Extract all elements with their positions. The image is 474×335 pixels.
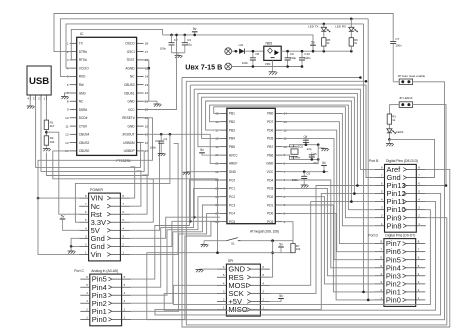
node corridorA outer2 join xyxy=(189,220,192,223)
wire JP LED13 left xyxy=(389,104,399,106)
svg-text:LED TX: LED TX xyxy=(308,25,318,29)
ground (LED13) xyxy=(386,139,394,146)
wire PD3-Pin3 xyxy=(282,188,374,275)
svg-text:C3: C3 xyxy=(187,38,191,42)
LED TX xyxy=(308,25,330,33)
wire xtal gnd xyxy=(318,147,324,149)
svg-text:RI#: RI# xyxy=(79,83,84,87)
wire POWER row 2 right xyxy=(130,171,141,206)
node outer3 join xyxy=(365,80,368,83)
wire analog Pin1 to PC4 xyxy=(131,213,220,311)
wire TEST AGND GND21 xyxy=(144,60,149,101)
svg-text:PD1: PD1 xyxy=(267,203,273,207)
wire outer left 1 xyxy=(193,89,195,217)
wire PD1-Pin1 xyxy=(282,205,374,292)
svg-text:PC3: PC3 xyxy=(229,203,235,207)
svg-text:DSR#: DSR# xyxy=(79,108,88,112)
svg-text:PD6: PD6 xyxy=(267,128,273,132)
svg-text:PD4: PD4 xyxy=(267,178,273,182)
svg-text:VCCIO: VCCIO xyxy=(79,66,90,70)
svg-text:CBUS0: CBUS0 xyxy=(79,149,90,153)
wire 7805 gnd xyxy=(272,60,274,66)
svg-text:Vin: Vin xyxy=(91,250,102,259)
power 5v (top) xyxy=(192,27,198,36)
connector Analog In header xyxy=(74,269,131,326)
wire MISO up xyxy=(270,194,355,310)
wire PD2-Pin2 xyxy=(282,197,374,284)
svg-text:100n: 100n xyxy=(242,61,249,65)
svg-text:IC: IC xyxy=(80,32,84,36)
wire ATmega GND22 xyxy=(190,171,220,173)
svg-text:VCC: VCC xyxy=(128,108,135,112)
FT232RL left pins 1-14 xyxy=(65,42,89,154)
LED RX xyxy=(335,25,358,33)
power 5v (ATmega VCC) xyxy=(321,161,327,173)
wire R7 top xyxy=(292,241,294,244)
node C3 tap xyxy=(184,34,187,37)
wire PB1-Pin9 xyxy=(214,107,375,218)
svg-text:PB5: PB5 xyxy=(229,145,235,149)
wire analog Pin2 to PC3 xyxy=(131,205,220,303)
svg-text:PB3: PB3 xyxy=(229,128,235,132)
wire VBUS xyxy=(45,101,47,121)
svg-text:C2: C2 xyxy=(174,38,178,42)
wire rail DTR-reset xyxy=(54,14,393,52)
ground (SPI) xyxy=(196,269,204,272)
power 5v (AVCC) xyxy=(199,148,220,155)
wire POWER row 4 right xyxy=(130,179,153,222)
jumper JP LED13 xyxy=(399,96,413,107)
node serial-Pin0 xyxy=(367,299,370,302)
wire SPI GND xyxy=(203,268,217,270)
svg-text:PB6: PB6 xyxy=(267,153,273,157)
wire analog Pin3 to PC2 xyxy=(131,197,220,296)
wire AREF xyxy=(144,134,220,163)
svg-text:USBDM: USBDM xyxy=(123,141,135,145)
wire wrap outer4 top xyxy=(182,77,360,79)
resistor R6 1k xyxy=(349,38,358,46)
svg-text:12: 12 xyxy=(65,133,69,137)
node LED RX tap xyxy=(350,18,353,21)
svg-text:4k7: 4k7 xyxy=(50,124,55,128)
node serial-Pin1 xyxy=(362,291,365,294)
wire POWER gnd down xyxy=(70,246,72,251)
svg-text:PC1: PC1 xyxy=(229,187,235,191)
diode VD1 xyxy=(238,43,244,54)
svg-text:10k: 10k xyxy=(296,247,301,251)
svg-text:DCD#: DCD# xyxy=(79,116,88,120)
svg-text:PB2: PB2 xyxy=(229,120,235,124)
wire POWER row 1 right xyxy=(130,167,135,198)
svg-text:PB7: PB7 xyxy=(267,145,273,149)
node LED13 junction xyxy=(388,138,391,141)
wire PB6 xtal xyxy=(282,155,318,159)
svg-text:TEST: TEST xyxy=(126,58,134,62)
wire C2C3 gnd xyxy=(172,52,185,54)
node SCK-Pin13 xyxy=(356,184,359,187)
ground (C2C3) xyxy=(175,53,183,58)
svg-text:PC0: PC0 xyxy=(229,178,235,182)
svg-text:RTS#: RTS# xyxy=(79,58,87,62)
wire PD7-Pin7 xyxy=(282,122,374,244)
svg-text:23: 23 xyxy=(145,83,149,87)
connector POWER header xyxy=(79,188,130,261)
svg-text:100n: 100n xyxy=(292,178,299,182)
wire VCC20 up xyxy=(144,35,177,110)
node R6 rail tap xyxy=(350,50,353,53)
svg-text:100n: 100n xyxy=(395,44,402,48)
svg-text:AVCC: AVCC xyxy=(229,153,238,157)
wire POWER row 3 right xyxy=(130,175,147,214)
svg-text:GND: GND xyxy=(128,124,136,128)
wire Gnd join xyxy=(71,238,79,246)
svg-text:27: 27 xyxy=(145,50,149,54)
wire Vin left xyxy=(38,118,153,255)
svg-text:5v: 5v xyxy=(311,41,315,45)
svg-text:OSCO: OSCO xyxy=(125,42,135,46)
svg-text:DTR#: DTR# xyxy=(79,50,88,54)
node reset-jct1 xyxy=(271,239,274,242)
connector USB xyxy=(27,66,51,95)
wire VIN left xyxy=(38,197,79,199)
svg-text:S1: S1 xyxy=(231,242,235,246)
connector Digital Pins D0-D7 header xyxy=(368,233,425,306)
crystal ZQ1 16MHz xyxy=(289,145,303,160)
wire POWER Gnd net A xyxy=(130,217,220,238)
wire rail TX down xyxy=(364,24,375,292)
node 3V3 branch xyxy=(169,133,172,136)
wire R1-R2 xyxy=(45,130,47,136)
wire ATmega GND8 xyxy=(282,159,318,163)
capacitor C7 100n xyxy=(390,37,402,82)
node R5 rail tap xyxy=(323,50,326,53)
ground (xtal) xyxy=(321,149,329,152)
svg-text:JP LED13: JP LED13 xyxy=(399,96,413,100)
node VBUS divider junction xyxy=(45,131,48,134)
resistor R2 10k xyxy=(44,136,55,145)
svg-text:C1: C1 xyxy=(164,137,168,141)
node autoreset-jct xyxy=(216,251,219,254)
svg-text:28: 28 xyxy=(145,42,149,46)
svg-text:PB4: PB4 xyxy=(229,137,235,141)
wire C7 to JP xyxy=(393,81,399,83)
wire AGND stub xyxy=(144,67,149,69)
svg-text:7805: 7805 xyxy=(265,42,272,46)
node diode anode xyxy=(235,50,238,53)
node xtal right top xyxy=(317,143,320,146)
wire JP LED13 right xyxy=(413,105,446,186)
wire LEDRX top xyxy=(350,19,352,28)
capacitor C8 100n xyxy=(242,50,260,68)
text Uvx 7-15 V xyxy=(185,63,222,72)
wire outer left 2 xyxy=(189,85,191,221)
wire PD0-Pin0 xyxy=(282,213,374,300)
connector Digital Pins D8-D13 header xyxy=(369,159,426,232)
wire USB D+ loop xyxy=(41,101,144,172)
wire wrap MOSI-b xyxy=(173,210,430,305)
wire outer left 3 xyxy=(186,81,447,325)
FT232RL right pins 28-15 xyxy=(122,42,148,154)
capacitor C4 22p xyxy=(303,135,312,151)
svg-text:PD3: PD3 xyxy=(267,187,273,191)
wire gnd rail xyxy=(253,66,302,68)
svg-text:USB: USB xyxy=(29,76,49,87)
svg-text:5v: 5v xyxy=(193,27,197,31)
svg-text:MISO: MISO xyxy=(228,305,247,314)
svg-text:ATmega8 (168, 328): ATmega8 (168, 328) xyxy=(250,229,279,233)
svg-text:Port B: Port B xyxy=(369,159,379,163)
op IC FT232RL box xyxy=(77,32,137,163)
wire diode to 7805 xyxy=(245,50,263,52)
wire PB5-Pin13 xyxy=(198,93,375,185)
svg-text:PD0: PD0 xyxy=(267,212,273,216)
ground (USB shell) xyxy=(27,101,35,109)
wire rail TXD-serial xyxy=(66,24,364,68)
node MOSI-Pin11 xyxy=(350,200,353,203)
svg-text:Digital Pins (D8-D13): Digital Pins (D8-D13) xyxy=(386,159,418,163)
svg-text:AREF: AREF xyxy=(229,162,238,166)
wire CBUS0 loop xyxy=(53,151,218,253)
wire PB3-Pin11 xyxy=(206,101,375,202)
svg-text:VCC: VCC xyxy=(267,170,274,174)
wire outer left 4 xyxy=(182,78,450,328)
svg-text:CBUS2: CBUS2 xyxy=(79,141,90,145)
wire 3V3 to 3.3V row xyxy=(75,134,169,222)
wire rail RX down xyxy=(368,19,374,300)
svg-text:NC: NC xyxy=(79,100,84,104)
node corridorA outer1 join xyxy=(193,216,196,219)
svg-text:100μ: 100μ xyxy=(290,56,297,60)
wire LEDRX-R6 xyxy=(350,32,352,38)
svg-text:Uвх 7-15 В: Uвх 7-15 В xyxy=(185,63,222,72)
wire PB0-Pin8 xyxy=(282,113,375,225)
wire PB2-Pin10 xyxy=(210,105,375,210)
wire analog Pin0 to PC5 xyxy=(131,222,220,320)
capacitor C2 100n xyxy=(160,35,178,53)
svg-text:AGND: AGND xyxy=(125,66,135,70)
svg-text:FT232RL: FT232RL xyxy=(116,159,131,163)
svg-text:PB0: PB0 xyxy=(267,112,273,116)
wire USB D- loop xyxy=(36,101,144,168)
capacitor C3 10u xyxy=(182,35,192,53)
node VCC7 C tap xyxy=(303,170,306,173)
svg-text:Pin8: Pin8 xyxy=(387,221,402,230)
jumper JP auto reset enable xyxy=(398,74,426,84)
wire R3-LED13 xyxy=(388,124,390,128)
svg-text:RESET#: RESET# xyxy=(122,116,135,120)
svg-text:GND: GND xyxy=(266,162,274,166)
resistor R5 1k xyxy=(322,38,331,46)
wire VCC7 right xyxy=(282,171,328,173)
node reset-jct2 xyxy=(271,251,274,254)
svg-text:13: 13 xyxy=(65,141,69,145)
svg-text:3V3OUT: 3V3OUT xyxy=(122,133,134,137)
svg-text:24: 24 xyxy=(145,75,149,79)
ground (FT232 GND21) xyxy=(149,101,162,106)
svg-text:PC2: PC2 xyxy=(229,195,235,199)
svg-text:C7: C7 xyxy=(395,37,399,41)
ground (S1) xyxy=(201,241,209,247)
svg-text:USBDP: USBDP xyxy=(124,149,135,153)
svg-text:NC: NC xyxy=(130,75,135,79)
svg-text:C6: C6 xyxy=(307,172,311,176)
capacitor C1 100n xyxy=(150,134,168,150)
svg-text:CTS#: CTS# xyxy=(79,124,87,128)
wire wrap outer3 top xyxy=(186,80,366,82)
node C1 tap xyxy=(160,133,163,136)
svg-text:16 MHz: 16 MHz xyxy=(291,155,301,159)
ground (FT232 pin7) xyxy=(61,97,69,100)
svg-text:Port C: Port C xyxy=(74,269,84,273)
ground (POWER) xyxy=(68,251,76,254)
svg-text:PB1: PB1 xyxy=(229,112,235,116)
wire PB4-Pin12 xyxy=(202,97,375,193)
node xtal right bottom xyxy=(317,158,320,161)
wire 7805 out xyxy=(281,50,352,52)
wire SCK up xyxy=(270,186,358,294)
wire reset down to RES xyxy=(260,241,272,278)
regulator VR1 7805 xyxy=(264,42,281,66)
ground (R2) xyxy=(43,145,51,151)
svg-text:PD7: PD7 xyxy=(267,120,273,124)
svg-text:Analog in (A0-A5): Analog in (A0-A5) xyxy=(91,269,118,273)
svg-text:vd1: vd1 xyxy=(238,43,243,47)
USB pins 4 3 2 1 xyxy=(27,95,46,101)
wire JP autoreset right xyxy=(147,82,445,320)
wire S1 to R xyxy=(241,240,293,242)
wire wrap MISO-b xyxy=(155,194,441,315)
node TEST join xyxy=(148,67,151,70)
node VCC20 tap xyxy=(175,34,178,37)
svg-text:100n: 100n xyxy=(304,56,311,60)
svg-text:PC6: PC6 xyxy=(267,220,273,224)
wire 5V top rail xyxy=(163,35,313,51)
node C2 tap xyxy=(170,34,173,37)
wire reset horiz 252 xyxy=(218,252,294,254)
svg-text:CBUS1: CBUS1 xyxy=(124,91,135,95)
connector SPI header xyxy=(217,259,270,316)
wire LEDTX-R5 xyxy=(323,32,325,38)
svg-text:Pin0: Pin0 xyxy=(386,296,401,305)
svg-text:GND: GND xyxy=(128,100,136,104)
wire wrap SCK-b xyxy=(164,202,435,311)
svg-text:CBUS4: CBUS4 xyxy=(79,133,90,137)
wire LEDTX top xyxy=(323,24,325,27)
wire PB7 xtal xyxy=(282,145,318,147)
svg-text:C8: C8 xyxy=(255,52,259,56)
wire C4 top xyxy=(305,136,307,138)
svg-text:100n: 100n xyxy=(150,146,157,150)
svg-text:5v: 5v xyxy=(322,161,326,165)
svg-text:5v: 5v xyxy=(200,148,204,152)
svg-text:VR1: VR1 xyxy=(265,62,271,66)
svg-text:5v: 5v xyxy=(61,214,65,218)
svg-text:SPI: SPI xyxy=(228,259,234,263)
ATmega8 left pins 15-28 xyxy=(215,112,238,224)
svg-text:PC5: PC5 xyxy=(229,220,235,224)
svg-text:11: 11 xyxy=(65,124,68,128)
wire R3 top xyxy=(388,105,390,114)
resistor R3 1k xyxy=(387,114,396,124)
wire analog Pin4 to PC1 xyxy=(131,188,220,287)
wire POWER row 8 right xyxy=(130,143,178,254)
svg-text:5v: 5v xyxy=(279,294,283,298)
capacitor C6 100n xyxy=(292,172,311,184)
svg-text:Pin0: Pin0 xyxy=(92,315,107,324)
svg-text:22p: 22p xyxy=(307,147,312,151)
power 5v (rail) xyxy=(310,41,316,53)
wire analog Pin5 to PC0 xyxy=(131,180,220,279)
svg-text:10μ: 10μ xyxy=(187,43,192,47)
wire wrap Gnd top xyxy=(190,85,375,177)
svg-text:POWER: POWER xyxy=(90,188,103,192)
power 5v (POWER) xyxy=(60,214,79,230)
node LED TX tap xyxy=(323,23,326,26)
svg-text:Digital Pins (D0-D7): Digital Pins (D0-D7) xyxy=(385,233,415,237)
power 5v (reset pullup) xyxy=(278,242,284,252)
ground (C6) xyxy=(301,183,309,188)
svg-text:CBUS3: CBUS3 xyxy=(124,83,135,87)
wire LED13 to right xyxy=(389,139,434,177)
wire PD5-Pin5 xyxy=(282,138,374,259)
svg-text:Port D: Port D xyxy=(368,233,378,237)
power 5v (SPI) xyxy=(270,294,284,302)
capacitor C9 100u xyxy=(285,50,297,68)
ground (C1) xyxy=(158,150,166,156)
capacitor C10 100n xyxy=(299,50,311,68)
switch S1 xyxy=(226,238,240,246)
wire wrap Aref top xyxy=(194,89,375,169)
svg-text:C5: C5 xyxy=(313,152,317,156)
svg-text:10k: 10k xyxy=(50,140,55,144)
capacitor C5 22p xyxy=(309,152,318,165)
LED LED13 xyxy=(387,129,404,134)
node outer4 join xyxy=(359,76,362,79)
wire POWER Gnd net B xyxy=(130,221,220,246)
svg-text:JP Auto reset enable: JP Auto reset enable xyxy=(398,74,426,78)
wire rail RTS-5V xyxy=(70,29,163,60)
node VIN junction xyxy=(37,197,40,200)
wire X1+ to diode xyxy=(232,50,239,52)
wire loop3 xyxy=(46,118,148,176)
wire RESET row xyxy=(204,240,226,242)
svg-text:LED1: LED1 xyxy=(396,130,404,134)
wire PC6 reset xyxy=(282,222,293,241)
wire R6-5V xyxy=(350,46,352,51)
connector X1 pin + xyxy=(225,48,232,55)
svg-text:ZQ1: ZQ1 xyxy=(298,145,304,149)
wire MOSI up xyxy=(270,202,352,286)
ground (regulator) xyxy=(269,67,278,75)
wire PD4-Pin4 xyxy=(282,180,374,268)
svg-text:22: 22 xyxy=(145,91,149,95)
node POWER gnd xyxy=(70,245,73,248)
svg-text:PC4: PC4 xyxy=(229,212,235,216)
wire PD6-Pin6 xyxy=(282,130,374,252)
wire rail RXD-serial xyxy=(60,19,368,77)
wire R5-5V xyxy=(323,46,325,51)
svg-text:GND: GND xyxy=(229,170,237,174)
wire xtal right xyxy=(317,145,319,160)
wire X1- to gnd rail xyxy=(232,66,272,68)
wire LED13 bottom xyxy=(388,133,390,139)
svg-text:GND: GND xyxy=(79,91,87,95)
ground (ATmega GND22) xyxy=(183,172,191,175)
connector X1 pin - xyxy=(225,63,232,70)
ATmega8 right pins 14-1 xyxy=(266,112,287,224)
svg-text:100n: 100n xyxy=(160,47,167,51)
resistor R7 10k xyxy=(291,244,301,253)
